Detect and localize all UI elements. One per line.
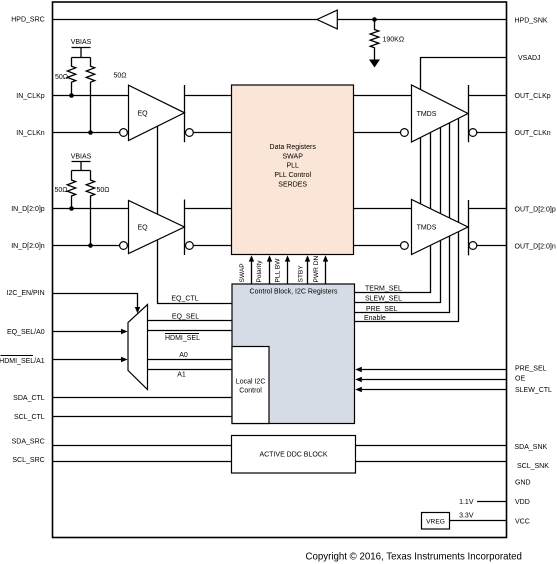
wire OUT_Dn [477, 245, 507, 247]
wire TMDS2 in p [354, 208, 412, 210]
svg-text:SLEW_SEL: SLEW_SEL [365, 296, 402, 303]
block U4 Control Block, I2C Registers [232, 284, 355, 424]
svg-text:3.3V: 3.3V [459, 513, 474, 520]
wire TMDS1 in p [354, 95, 412, 97]
pin label HDMI_SEL/A1 (active low) [0, 356, 45, 366]
wire EQ2 out n [193, 245, 231, 247]
svg-text:PLL: PLL [286, 163, 299, 170]
block U2 Data Registers / SWAP / PLL / PLL Control / SERDES [232, 85, 354, 255]
svg-text:I2C_EN/PIN: I2C_EN/PIN [7, 290, 45, 297]
node HPD junction [372, 17, 377, 22]
svg-text:PRE_SEL: PRE_SEL [515, 366, 547, 373]
wire Enable net [355, 118, 459, 321]
wire Polarity arrow [256, 255, 272, 284]
wire IN_Dn [53, 245, 120, 247]
node EQ1 output bar [184, 85, 186, 142]
svg-text:A0: A0 [179, 352, 188, 359]
svg-text:PWR DN: PWR DN [313, 256, 320, 283]
svg-text:SCL_SRC: SCL_SRC [12, 457, 44, 464]
svg-text:Local I2C: Local I2C [236, 378, 266, 385]
ground [369, 60, 380, 68]
svg-text:IN_D[2:0]n: IN_D[2:0]n [11, 243, 45, 250]
node VBIAS (data pair) [71, 154, 92, 171]
svg-text:OE: OE [515, 375, 525, 382]
bubble EQ2 inverted output [186, 242, 194, 250]
svg-text:TERM_SEL: TERM_SEL [365, 285, 402, 292]
bubble TMDS2 inverted output [469, 242, 477, 250]
svg-text:1.1V: 1.1V [459, 499, 474, 506]
node EQ2 output bar [184, 200, 186, 256]
node junction IN_Dp [69, 206, 74, 211]
wire TERM_SEL net [355, 132, 431, 292]
svg-text:VCC: VCC [515, 518, 530, 525]
bubble EQ1 inverting input [120, 129, 128, 137]
svg-text:EQ: EQ [137, 225, 148, 232]
svg-text:HPD_SRC: HPD_SRC [11, 17, 44, 24]
wire EQ1 out p [185, 95, 232, 97]
svg-text:EQ_SEL: EQ_SEL [172, 313, 199, 320]
wire SLEW_CTL input arrow [355, 387, 506, 392]
wire TMDS1 in n [354, 132, 401, 134]
svg-text:EQ_CTL: EQ_CTL [171, 296, 198, 303]
wire HDMI_SEL/A1 into mux [53, 359, 122, 361]
svg-text:EQ: EQ [137, 110, 148, 117]
svg-text:HDMI_SEL: HDMI_SEL [165, 335, 200, 342]
wire OUT_CLKn [477, 132, 507, 134]
wire PRE_SEL net [355, 123, 450, 313]
buffer TMDS1 [412, 85, 469, 142]
wire SDA_CTL [53, 397, 233, 399]
svg-text:Enable: Enable [364, 315, 386, 322]
svg-text:IN_CLKn: IN_CLKn [16, 130, 45, 137]
wire EQ_CTL vertical net [158, 126, 233, 303]
svg-text:VSADJ: VSADJ [518, 55, 541, 62]
svg-text:OUT_D[2:0]n: OUT_D[2:0]n [515, 244, 556, 251]
bubble EQ2 inverting input [120, 242, 128, 250]
wire EQ1 out n [193, 132, 231, 134]
wire HDMI_SEL mux to control [148, 330, 233, 332]
node VBIAS (clock pair) [71, 39, 92, 58]
wire IN_CLKp [53, 95, 129, 97]
resistor 50Ω (IN_CLKp termination) [67, 58, 75, 96]
svg-text:SCL_CTL: SCL_CTL [14, 414, 45, 421]
buffer TMDS2 [412, 200, 469, 255]
svg-text:OUT_CLKp: OUT_CLKp [515, 93, 551, 100]
resistor 50Ω (IN_Dp termination) [67, 171, 75, 209]
label HDMI_SEL (active low) [165, 334, 200, 343]
svg-text:PRE_SEL: PRE_SEL [366, 306, 398, 313]
svg-text:SDA_CTL: SDA_CTL [13, 395, 45, 402]
wire EQ_SEL mux to control [148, 320, 233, 322]
block VREG [422, 513, 450, 530]
svg-text:SERDES: SERDES [278, 182, 307, 189]
outer border frame of device [53, 2, 507, 538]
svg-text:SDA_SNK: SDA_SNK [515, 444, 548, 451]
wire SCL_CTL [53, 416, 233, 418]
wire A1 mux to local i2c [148, 369, 233, 371]
svg-text:VBIAS: VBIAS [71, 39, 92, 46]
svg-text:VREG: VREG [426, 518, 445, 525]
node junction IN_Dn [88, 243, 93, 248]
node junction IN_CLKn [88, 130, 93, 135]
svg-text:Polarity: Polarity [256, 260, 263, 283]
wire PLL BW arrow [275, 255, 291, 284]
svg-text:OUT_D[2:0]p: OUT_D[2:0]p [515, 206, 556, 213]
wire SLEW_SEL net [355, 127, 441, 302]
node TMDS1 output bar [468, 85, 470, 142]
wire SWAP arrow [239, 255, 254, 284]
svg-text:GND: GND [515, 480, 531, 487]
wire SDA_SNK [356, 445, 507, 447]
op-amp EQ2 [129, 201, 185, 254]
svg-text:A1: A1 [177, 372, 186, 379]
node TMDS2 output bar [468, 200, 470, 255]
svg-text:ACTIVE DDC BLOCK: ACTIVE DDC BLOCK [259, 452, 327, 459]
svg-text:50Ω: 50Ω [114, 73, 127, 80]
svg-text:Data Registers: Data Registers [270, 144, 317, 151]
wire I2C_EN/PIN into mux [53, 294, 138, 309]
svg-text:50Ω: 50Ω [97, 187, 110, 194]
wire OUT_Dp [469, 208, 507, 210]
svg-text:190KΩ: 190KΩ [383, 36, 405, 43]
wire OUT_CLKp [469, 95, 507, 97]
wire PRE_SEL input arrow [355, 367, 506, 372]
wire VSADJ net [421, 58, 507, 251]
svg-text:50Ω: 50Ω [54, 187, 67, 194]
mux I2C/pin select [128, 305, 148, 390]
svg-text:PLL Control: PLL Control [274, 172, 311, 179]
wire EQ2 out p [185, 208, 232, 210]
svg-text:SWAP: SWAP [283, 153, 304, 160]
wire VDD 1.1V [477, 501, 507, 503]
block U5 Local I2C Control [232, 347, 269, 424]
svg-text:HPD_SNK: HPD_SNK [515, 18, 548, 25]
svg-text:Control: Control [239, 388, 262, 395]
wire EQ_SEL/A0 into mux [53, 331, 122, 333]
wire SDA_SRC [53, 445, 232, 447]
node junction IN_CLKp [69, 93, 74, 98]
svg-text:VBIAS: VBIAS [71, 154, 92, 161]
svg-text:IN_D[2:0]p: IN_D[2:0]p [11, 206, 45, 213]
buffer U3 HPD [317, 10, 337, 29]
svg-text:50Ω: 50Ω [55, 74, 68, 81]
resistor R 190KΩ [370, 20, 379, 64]
svg-text:OUT_CLKn: OUT_CLKn [515, 130, 551, 137]
wire OE input arrow [355, 377, 506, 382]
svg-text:HDMI_SEL/A1: HDMI_SEL/A1 [0, 358, 45, 365]
wire A0 mux to local i2c [148, 359, 233, 361]
wire IN_Dp [53, 208, 129, 210]
bubble TMDS1 inverted output [469, 129, 477, 137]
resistor 50Ω (IN_Dn termination) [86, 171, 94, 246]
svg-text:STBY: STBY [298, 265, 305, 283]
wire STBY arrow [298, 255, 311, 284]
wire VCC 3.3V [450, 520, 507, 522]
block U6 ACTIVE DDC BLOCK [232, 436, 356, 474]
svg-text:Control Block, I2C Registers: Control Block, I2C Registers [250, 288, 338, 295]
svg-text:VDD: VDD [515, 499, 530, 506]
bubble EQ1 inverted output [186, 129, 194, 137]
wire SCL_SRC [53, 461, 232, 463]
svg-text:SCL_SNK: SCL_SNK [517, 463, 549, 470]
svg-text:IN_CLKp: IN_CLKp [16, 93, 45, 100]
wire IN_CLKn [53, 132, 120, 134]
bubble TMDS1 inverting input [401, 129, 409, 137]
op-amp EQ1 [129, 85, 185, 140]
resistor 50Ω (IN_CLKn termination) [86, 58, 94, 133]
svg-text:SLEW_CTL: SLEW_CTL [515, 387, 552, 394]
svg-text:PLL BW: PLL BW [275, 258, 282, 283]
bubble TMDS2 inverting input [401, 242, 409, 250]
wire HPD_SRC to HPD_SNK [53, 19, 507, 21]
svg-text:EQ_SEL/A0: EQ_SEL/A0 [7, 329, 45, 336]
wire SCL_SNK [356, 461, 507, 463]
svg-text:Copyright © 2016, Texas Instru: Copyright © 2016, Texas Instruments Inco… [306, 552, 522, 563]
svg-text:SWAP: SWAP [239, 263, 246, 283]
wire TMDS2 in n [354, 245, 401, 247]
svg-text:SDA_SRC: SDA_SRC [12, 439, 45, 446]
svg-text:TMDS: TMDS [417, 111, 437, 118]
svg-text:TMDS: TMDS [417, 225, 437, 232]
wire PWR DN arrow [313, 255, 328, 284]
